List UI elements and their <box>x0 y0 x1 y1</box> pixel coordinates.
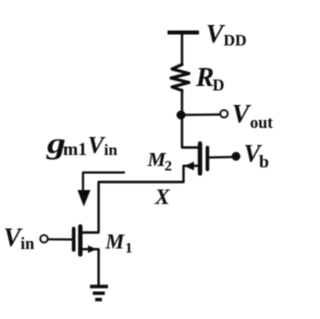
power rail VDD bar <box>168 31 200 35</box>
terminal Vout open circle <box>220 110 227 117</box>
label VDD <box>206 20 247 50</box>
transistor M2 gate bar <box>206 148 210 170</box>
svg-text:in: in <box>21 234 35 253</box>
svg-text:D: D <box>213 76 225 95</box>
label RD <box>195 62 225 95</box>
svg-text:M: M <box>147 149 167 171</box>
svg-text:1: 1 <box>125 241 133 257</box>
wire M2 source to node X <box>82 166 198 233</box>
svg-text:out: out <box>250 113 273 132</box>
svg-text:2: 2 <box>165 159 173 175</box>
svg-text:X: X <box>154 184 171 209</box>
transistor M2 channel bar <box>198 144 202 174</box>
svg-text:m1: m1 <box>63 139 87 159</box>
label M1 <box>105 230 133 257</box>
current arrow gm1*Vin (wire part) <box>83 173 124 194</box>
svg-text:b: b <box>259 152 269 172</box>
svg-text:DD: DD <box>224 33 247 50</box>
label Vb <box>244 141 269 172</box>
current arrow gm1*Vin (head) <box>78 190 91 207</box>
wire Vin terminal to M1 gate <box>48 238 72 240</box>
svg-text:R: R <box>195 62 214 92</box>
terminal Vin open circle <box>40 235 47 242</box>
svg-text:in: in <box>104 142 117 159</box>
label M2 <box>147 149 173 175</box>
terminal Vb dot <box>232 152 241 161</box>
transistor M2 source arrowhead <box>184 162 194 171</box>
wire Vout node down to M2 drain <box>182 115 199 148</box>
transistor M1 gate bar <box>72 229 76 251</box>
transistor M1 source arrowhead <box>88 245 97 253</box>
wire resistor bottom to Vout node <box>181 90 183 115</box>
label Vin <box>4 223 35 253</box>
svg-text:V: V <box>232 100 252 129</box>
label gm1 Vin <box>46 127 118 160</box>
node Vout junction dot <box>177 111 186 120</box>
wire VDD bar to resistor top <box>181 33 183 65</box>
svg-text:M: M <box>105 230 126 254</box>
wire Vout node to output terminal <box>181 113 220 116</box>
resistor RD zigzag <box>171 65 189 91</box>
wire M1 source to ground <box>82 249 99 286</box>
wire M2 gate to Vb <box>208 156 232 159</box>
transistor M1 channel bar <box>78 227 82 255</box>
label Vout <box>232 100 273 133</box>
ground symbol <box>90 287 108 300</box>
